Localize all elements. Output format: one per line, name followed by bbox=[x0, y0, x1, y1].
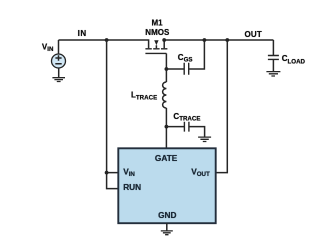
op-amp U1 regulator block bbox=[118, 148, 215, 223]
transistor M1 NMOS bbox=[145, 40, 167, 53]
capacitor CLOAD bbox=[268, 56, 279, 60]
svg-text:TRACE: TRACE bbox=[136, 95, 157, 102]
node M1 source junction bbox=[162, 38, 166, 42]
wire LTRACE to GATE pin bbox=[165, 108, 167, 148]
wire IN net: source to M1 drain bbox=[59, 40, 149, 48]
label VIN (source) bbox=[42, 43, 54, 54]
wire RUN pin branch bbox=[107, 173, 119, 189]
pin VIN label bbox=[123, 166, 135, 178]
inductor LTRACE bbox=[163, 82, 167, 108]
svg-text:OUT: OUT bbox=[245, 30, 263, 39]
label LTRACE bbox=[131, 90, 157, 101]
wire CGS right lead up to OUT net bbox=[189, 40, 205, 69]
wire CTRACE left lead bbox=[166, 126, 184, 128]
svg-text:IN: IN bbox=[47, 46, 54, 53]
svg-text:GS: GS bbox=[184, 57, 193, 64]
wire CTRACE right lead to ground bbox=[189, 127, 205, 137]
pin GND label bbox=[158, 210, 176, 220]
wire VIN source top lead to IN wire bbox=[58, 40, 60, 54]
svg-text:RUN: RUN bbox=[123, 182, 141, 192]
wire GND pin bbox=[166, 223, 168, 230]
capacitor CTRACE bbox=[184, 122, 189, 132]
label CGS bbox=[178, 53, 193, 64]
svg-text:IN: IN bbox=[129, 171, 136, 178]
svg-text:GND: GND bbox=[158, 210, 176, 220]
svg-text:LOAD: LOAD bbox=[288, 58, 306, 65]
pin RUN label bbox=[123, 182, 141, 192]
ground (CLOAD) bbox=[266, 72, 280, 76]
svg-text:TRACE: TRACE bbox=[179, 116, 200, 123]
wire CLOAD bottom lead bbox=[272, 59, 274, 71]
node CTRACE junction bbox=[165, 125, 169, 129]
voltage source VIN bbox=[52, 54, 66, 68]
wire CGS left lead bbox=[166, 68, 184, 70]
pin VOUT label bbox=[191, 166, 210, 178]
svg-text:OUT: OUT bbox=[197, 171, 210, 178]
label CLOAD bbox=[282, 54, 306, 65]
pin GATE label bbox=[155, 153, 178, 163]
node VIN/RUN branch junction bbox=[105, 171, 109, 175]
node OUT/VOUT branch junction bbox=[225, 38, 229, 42]
node IN branch junction bbox=[105, 38, 109, 42]
label IN bbox=[78, 29, 87, 38]
wire OUT net: M1 source to CLOAD bbox=[164, 39, 273, 41]
svg-text:M1: M1 bbox=[152, 19, 164, 28]
svg-text:IN: IN bbox=[78, 29, 87, 38]
label CTRACE bbox=[173, 112, 200, 123]
svg-text:NMOS: NMOS bbox=[145, 28, 170, 37]
capacitor CGS bbox=[184, 63, 189, 75]
node gate/CGS junction bbox=[165, 67, 169, 71]
wire gate net vertical (gate plate to GATE pin) bbox=[165, 53, 167, 82]
ground (CTRACE) bbox=[198, 137, 211, 141]
wire CLOAD top lead bbox=[272, 40, 274, 55]
wire VIN source bottom lead to ground bbox=[58, 68, 60, 77]
wire VIN pin branch bbox=[107, 40, 119, 173]
svg-text:GATE: GATE bbox=[155, 153, 178, 163]
label M1 NMOS bbox=[145, 19, 170, 38]
node CGS/OUT junction bbox=[203, 38, 207, 42]
wire VOUT branch: OUT net down to VOUT pin bbox=[216, 40, 228, 173]
ground (below VIN source) bbox=[52, 78, 65, 82]
label OUT bbox=[245, 30, 263, 39]
ground (U1 GND pin) bbox=[161, 231, 173, 235]
